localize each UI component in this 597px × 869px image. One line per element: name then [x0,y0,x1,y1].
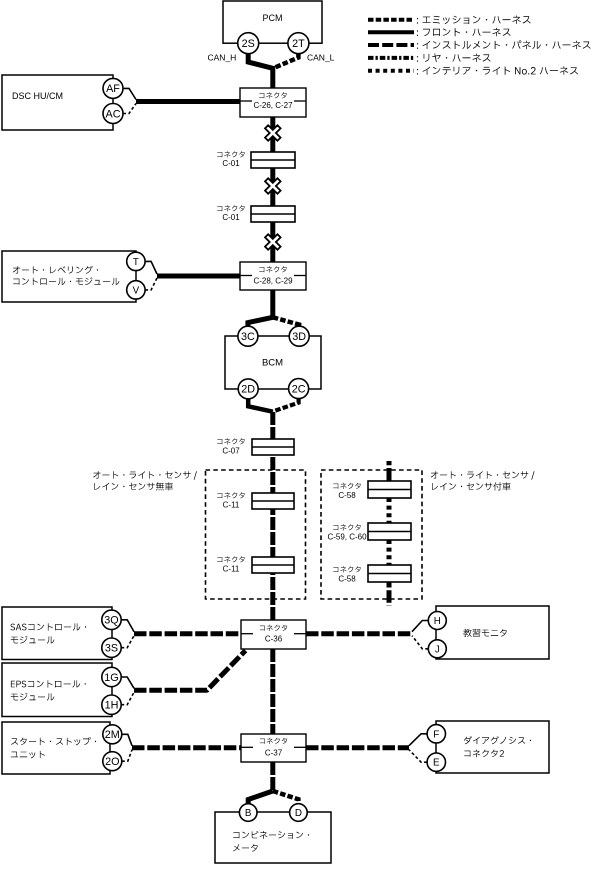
svg-text:E: E [433,758,440,769]
module diagnosis label line2 [464,750,504,758]
connector C-59/C-60 box [368,523,411,540]
wire: PCM pin 2S to merge (CAN_H, solid) [248,54,273,69]
svg-text:C-11: C-11 [223,500,240,509]
connector C-01 lower box [251,206,295,222]
svg-text:2D: 2D [241,384,255,396]
wire: with-sensor branch C-58 to C-59/C-60 (interior light No.2 harness dotted) [387,498,392,523]
module diagnosis connector 2 box [436,721,549,773]
connector C-59/C-60 label [333,524,361,530]
wire: C-37 to diagnosis connector junction (instrument panel harness) [306,745,409,750]
module diagnosis label line1 [464,736,531,744]
wire: meter split to pin B (solid) [248,791,273,804]
pin B [239,804,257,822]
label: with sensor group line2 [432,482,511,490]
pin 2C [289,379,309,399]
connector C-11 upper label [217,492,245,498]
connector C-36 box [241,620,306,649]
wire: SAS junction to C-36 (instrument panel harness) [134,631,241,636]
module start-stop label line2 [11,751,45,759]
connector C-01 lower label [217,205,245,211]
group box: without auto light/rain sensor (dashed outline) [206,470,306,599]
svg-text:F: F [433,729,439,740]
wire: elbow diagnosis pin E (dashed) [409,750,427,763]
svg-text:D: D [295,808,302,819]
pin E [427,753,445,771]
splice X mark 3 [260,230,285,255]
module EPS label line2 [11,693,55,701]
wire: BCM pin 2D to merge (solid) [248,399,273,412]
wire: elbow monitor pin H (solid) [412,621,428,632]
connector C-58 lower box [368,565,411,582]
connector C-26/C-27 box [240,88,306,117]
pin AC [103,104,123,124]
svg-text:T: T [133,257,139,268]
connector C-01 upper label [217,151,245,157]
svg-text:PCM: PCM [263,13,283,23]
pin 2D [238,379,258,399]
connector C-58 upper label [333,483,361,489]
svg-text:AC: AC [106,108,121,120]
module auto-leveling label line1 [13,266,98,274]
svg-text:2O: 2O [105,756,119,768]
module PCM box [223,1,322,43]
svg-text:C-58: C-58 [338,491,356,500]
module combination meter box [215,812,331,863]
legend text: emission harness [417,16,531,25]
legend text: instrument panel harness [417,40,591,49]
wire: with-sensor branch lower stub (instrument panel harness) [387,582,392,606]
label: with sensor group line1 [431,471,535,480]
wire: trunk C-37 to meter split (instrument panel harness) [270,762,275,791]
wire: elbow start-stop pin 2M (solid) [122,734,132,745]
wire: elbow DSC pin AF (solid) [123,88,136,99]
connector C-11 upper box [252,493,294,509]
svg-text:1G: 1G [104,672,118,684]
svg-text:C-28, C-29: C-28, C-29 [253,276,293,285]
wire: BCM split to pin 3D (dashed) [273,317,299,326]
wire: trunk PCM merge to connector C-26/C-27 [270,66,275,88]
legend line sample: front harness [368,30,414,34]
pin D [290,804,308,822]
svg-text:C-11: C-11 [223,564,240,573]
wire: elbow auto-leveling pin V (dashed) [145,278,157,290]
pin 3C [238,326,258,346]
pin J [428,640,446,658]
module training monitor box [436,606,549,659]
module combination meter label line2 [233,844,258,852]
pin T [127,252,145,270]
svg-text:2T: 2T [292,38,305,50]
legend line sample: emission harness [368,18,414,22]
svg-text:3S: 3S [105,643,118,655]
wire: elbow SAS pin 3Q (solid) [121,620,134,632]
wire: BCM split to pin 3C (solid) [248,317,273,326]
svg-text:C-59, C-60: C-59, C-60 [327,532,367,541]
svg-text:H: H [434,616,441,627]
pin 1H [102,695,121,714]
legend text: interior light No.2 harness [417,66,578,74]
module EPS label line1 [11,680,86,687]
connector C-28/C-29 box [240,262,306,290]
wire: elbow DSC pin AC (dashed) [123,104,136,114]
svg-text:CAN_H: CAN_H [208,53,237,63]
svg-text:B: B [245,808,252,819]
wire: elbow start-stop pin 2O (dashed) [122,750,132,762]
label: without sensor group line2 [94,482,172,490]
pin H [428,612,446,630]
wire: start-stop junction to C-37 (instrument panel harness) [132,745,241,750]
pin 3S [102,638,121,657]
wire: elbow EPS pin 1H (dashed) [121,692,134,704]
pin F [427,725,445,743]
module start-stop unit box [2,722,110,774]
pin V [127,281,145,299]
svg-text:3C: 3C [241,331,255,343]
svg-text:2M: 2M [105,729,120,741]
wire: meter split to pin D (dashed) [273,791,299,804]
svg-text:3Q: 3Q [104,615,118,627]
svg-text:C-07: C-07 [222,446,240,455]
module start-stop label line1 [11,737,96,745]
wire: elbow SAS pin 3S (dashed) [121,636,134,648]
module SAS label line2 [11,636,55,644]
wire: EPS junction to C-36 diagonal (instrument panel harness) [134,651,246,691]
legend text: front harness [417,28,511,36]
pin 2O [103,752,122,771]
wire: with-sensor branch C-59/C-60 to C-58 (interior light No.2 harness dotted) [387,540,392,565]
module DSC HU/CM box [2,75,113,130]
wire: elbow EPS pin 1G (solid) [121,677,134,688]
wire: PCM pin 2T to merge (CAN_L, emission harness dashed) [273,54,298,69]
module EPS control box [2,663,112,717]
svg-text:3D: 3D [292,331,306,343]
pin AF [103,78,123,98]
module BCM box [225,336,321,389]
legend line sample: interior light No.2 harness [368,69,414,73]
legend line sample: instrument panel harness [368,43,414,47]
svg-text:C-58: C-58 [338,574,356,583]
wire: elbow diagnosis pin F (solid) [409,734,427,746]
wire: DSC HU/CM junction to C-26/C-27 (front harness solid) [136,99,240,104]
module auto-leveling label line2 [13,277,119,285]
svg-text:CAN_L: CAN_L [307,53,335,63]
svg-text:J: J [435,644,440,655]
pin 3D [289,326,309,346]
wire: trunk BCM merge to connector C-36 (instrument panel harness) [270,412,275,620]
svg-text:C-36: C-36 [265,634,283,643]
connector C-11 lower label [217,556,245,562]
module combination meter label line1 [233,831,309,839]
svg-text:BCM: BCM [262,357,283,368]
legend text: rear harness [417,54,491,63]
svg-text:C-26, C-27: C-26, C-27 [253,101,293,110]
svg-text:C-01: C-01 [222,213,240,222]
splice X mark 1 [260,121,285,146]
wire: elbow monitor pin J (dashed) [412,636,428,649]
connector C-37 box [241,734,306,762]
wire: auto-leveling junction to C-28/C-29 (front harness solid) [157,274,240,279]
svg-text:1H: 1H [105,700,119,712]
svg-text:AF: AF [106,83,120,95]
svg-text:C-37: C-37 [265,748,283,757]
legend line sample: rear harness [368,56,414,60]
svg-text:2S: 2S [242,38,255,50]
svg-text:C-01: C-01 [222,159,240,168]
connector C-01 upper box [251,152,295,168]
pin 2T [288,33,309,54]
wire: trunk C-26/C-27 to C-28/C-29 (front harness solid, through C-01 connectors) [270,117,275,262]
wire: BCM pin 2C to merge (dashed) [273,399,299,412]
connector C-07 box [252,439,294,455]
group box: with auto light/rain sensor (dashed outline) [321,470,422,599]
module auto-leveling control box [2,251,136,302]
svg-text:DSC HU/CM: DSC HU/CM [12,91,63,101]
svg-text:2C: 2C [292,383,306,395]
svg-text:V: V [133,285,140,296]
wire: trunk C-28/C-29 to BCM split [270,290,275,317]
wire: C-36 to training monitor junction (instrument panel harness) [306,631,412,636]
module SAS label line1 [10,623,86,630]
pin 1G [102,667,121,686]
connector C-11 lower box [252,557,294,573]
connector C-58 lower label [333,566,361,572]
wire: elbow auto-leveling pin T (solid) [145,261,157,274]
splice X mark 2 [260,174,285,199]
label: without sensor group line1 [93,471,197,480]
wire: trunk C-36 to C-37 (instrument panel harness) [270,649,275,734]
connector C-07 label [217,438,245,444]
wire: with-sensor branch upper stub (instrument panel harness) [387,461,392,481]
pin 2S [238,33,259,54]
pin 2M [103,725,122,744]
module training monitor label [463,629,506,637]
module SAS control box [2,607,112,660]
connector C-58 upper box [368,481,411,498]
pin 3Q [102,610,121,629]
